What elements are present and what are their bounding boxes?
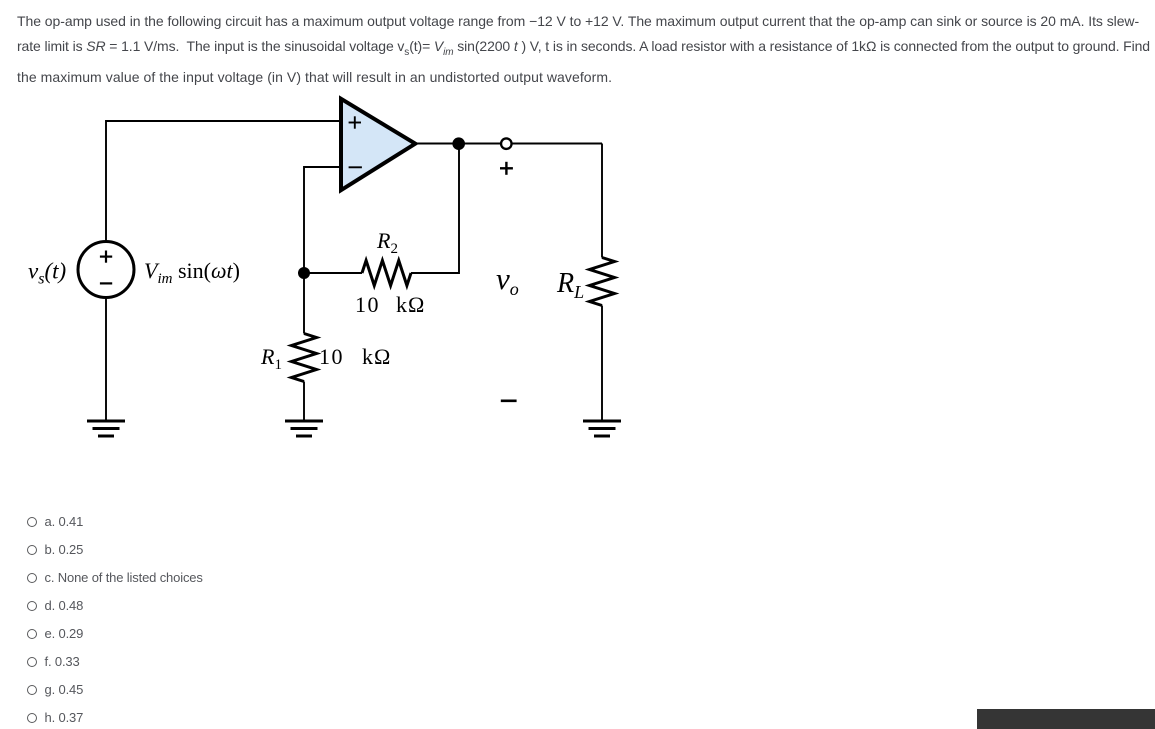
svg-text:vs(t): vs(t) <box>28 259 66 288</box>
wire RL bottom to ground <box>601 306 603 421</box>
ground at RL <box>583 421 621 436</box>
op-amp - pin label <box>349 166 362 168</box>
options <box>27 514 83 529</box>
label + at output terminal <box>500 162 513 175</box>
ground at R1 <box>285 421 323 436</box>
wire source bottom to ground <box>105 298 107 420</box>
svg-text:10: 10 <box>355 292 380 317</box>
output terminal open circle <box>501 138 512 149</box>
ground at source <box>87 421 125 436</box>
svg-text:kΩ: kΩ <box>396 292 425 317</box>
wire op-amp output to terminal <box>417 143 602 145</box>
label - at RL bottom <box>501 399 517 402</box>
wire R2 left to node <box>304 272 362 274</box>
wire op-amp - input to feedback node <box>304 167 340 334</box>
op-amp + pin label <box>349 116 361 128</box>
source - sign <box>100 282 112 284</box>
source + sign <box>100 251 112 263</box>
resistor RL zigzag <box>590 258 615 306</box>
svg-text:Vim sin(ωt): Vim sin(ωt) <box>144 258 240 287</box>
node dot at feedback <box>298 267 310 279</box>
svg-text:kΩ: kΩ <box>362 344 391 369</box>
svg-text:vo: vo <box>496 261 519 299</box>
source vs circle <box>78 242 134 298</box>
wire feedback node to R1 bottom to ground <box>303 382 305 421</box>
wire output junction down to R2 right <box>411 144 459 274</box>
svg-text:10: 10 <box>319 344 344 369</box>
wire source top to op-amp + input <box>106 121 340 241</box>
svg-text:RL: RL <box>556 268 584 302</box>
wire terminal to RL top <box>601 144 603 258</box>
op-amp U1 <box>341 99 415 190</box>
resistor R2 zigzag <box>362 261 411 286</box>
resistor R1 zigzag <box>292 334 317 382</box>
node dot at output junction <box>452 137 465 150</box>
svg-text:R2: R2 <box>376 228 398 257</box>
svg-text:R1: R1 <box>260 344 282 373</box>
